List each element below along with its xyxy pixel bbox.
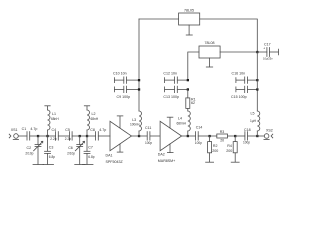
node B junction	[46, 135, 48, 137]
capacitor C17 electrolytic	[257, 48, 278, 57]
wire rail C15 to supply node (between 89.4 and 52 handled above via L5 path)	[256, 52, 258, 89]
svg-text:R4: R4	[227, 144, 232, 148]
capacitor C14	[196, 132, 199, 141]
svg-text:C6: C6	[68, 146, 73, 150]
capacitor C8	[96, 132, 99, 141]
op-amp DA1	[110, 116, 132, 152]
label L2 68nH	[91, 112, 99, 121]
capacitor C12	[165, 77, 188, 83]
op-amp DA2	[160, 117, 182, 152]
capacitor C18	[245, 132, 248, 141]
resistor R3	[210, 134, 236, 138]
node C12-rail junction	[187, 79, 189, 81]
svg-text:100p: 100p	[145, 141, 152, 145]
label C3 6.8p	[49, 146, 55, 160]
label R1 62	[191, 98, 196, 106]
ground under R2	[206, 161, 214, 163]
svg-text:DA1: DA1	[106, 154, 113, 158]
svg-text:C4: C4	[52, 128, 57, 132]
svg-text:L4: L4	[178, 117, 182, 121]
wire C14 to node G	[198, 135, 209, 137]
svg-text:78L08: 78L08	[205, 41, 215, 45]
wire C18 to node I	[248, 135, 258, 137]
svg-text:2/10p: 2/10p	[25, 152, 33, 156]
capacitor C7	[84, 136, 90, 164]
svg-text:DA2: DA2	[158, 153, 165, 157]
svg-text:6.8p: 6.8p	[88, 155, 94, 159]
node I junction	[256, 135, 258, 137]
label C17 + 10u/25v	[263, 42, 273, 60]
wire node I to XS2	[257, 135, 264, 137]
label R2 200	[212, 144, 218, 153]
inductor L5	[257, 89, 260, 136]
node C junction	[79, 135, 81, 137]
resistor R2	[208, 136, 212, 162]
wire C4 to C5	[58, 135, 69, 137]
svg-text:68nH: 68nH	[91, 117, 99, 121]
connector XS1	[9, 134, 18, 140]
svg-text:C8: C8	[90, 128, 95, 132]
wire node B to C4	[48, 135, 56, 137]
svg-text:L5: L5	[251, 112, 255, 116]
wire C1 to node A	[30, 135, 38, 137]
svg-text:10µ/25v: 10µ/25v	[263, 57, 273, 61]
wire C8 to DA1 input	[98, 135, 110, 137]
capacitor C1	[27, 132, 30, 141]
wire node F to C14	[188, 135, 196, 137]
node F junction	[187, 135, 189, 137]
ground under C3	[43, 164, 54, 166]
voltage regulator 78L05	[179, 13, 200, 25]
svg-text:4.7p: 4.7p	[99, 128, 106, 132]
node C15-rail junction	[256, 88, 258, 90]
label C18 100p	[243, 128, 251, 144]
svg-text:C10 10n: C10 10n	[113, 72, 127, 76]
capacitor C11	[139, 132, 160, 141]
svg-text:62: 62	[191, 101, 195, 105]
svg-text:C16 10n: C16 10n	[232, 72, 246, 76]
node E junction	[138, 135, 140, 137]
ground above L2	[84, 105, 89, 107]
ground under 78L05	[186, 25, 192, 35]
wire 78L08 input	[220, 51, 257, 53]
svg-text:C15 100p: C15 100p	[231, 95, 247, 99]
svg-text:2/10p: 2/10p	[67, 152, 75, 156]
svg-text:680nH: 680nH	[177, 122, 187, 126]
svg-text:C13 100p: C13 100p	[163, 95, 179, 99]
ground under R4	[231, 161, 239, 163]
wire DA2 output to node F	[182, 135, 188, 137]
node C9-rail junction	[138, 88, 140, 90]
svg-text:C3: C3	[49, 146, 54, 150]
svg-text:200: 200	[212, 149, 218, 153]
capacitor C10	[114, 77, 139, 83]
ground under 78L08	[206, 58, 212, 67]
svg-text:68nH: 68nH	[51, 117, 59, 121]
label R4 200	[226, 144, 232, 153]
svg-text:SPF5043Z: SPF5043Z	[106, 160, 124, 164]
ground under C2	[33, 164, 44, 166]
svg-text:78L05: 78L05	[184, 9, 194, 13]
inductor L2	[87, 106, 90, 136]
capacitor C13	[165, 86, 188, 92]
inductor L1	[48, 106, 51, 136]
svg-text:L2: L2	[92, 112, 96, 116]
label L3 100nH	[130, 118, 140, 127]
svg-text:1µH: 1µH	[250, 119, 257, 123]
svg-text:R3: R3	[220, 130, 225, 134]
wire node A to node B	[38, 135, 48, 137]
label C1 4.7p	[22, 127, 38, 131]
inductor L4	[188, 108, 191, 136]
svg-text:200: 200	[226, 149, 232, 153]
svg-text:XS2: XS2	[266, 129, 273, 133]
svg-text:6.8p: 6.8p	[49, 155, 55, 159]
trimmer capacitor C2	[34, 136, 43, 164]
wire node H to C18	[235, 135, 245, 137]
node A junction	[37, 135, 39, 137]
ground under C6	[75, 164, 86, 166]
wire node C to node D	[80, 135, 87, 137]
svg-text:100p: 100p	[243, 140, 250, 144]
svg-text:C1: C1	[22, 127, 27, 131]
label C4 2.2p	[50, 128, 56, 141]
svg-text:2.2p: 2.2p	[50, 137, 56, 141]
wire 78L08 output to 8V rail	[188, 52, 199, 80]
svg-text:C5: C5	[65, 128, 70, 132]
svg-text:C18: C18	[244, 128, 251, 132]
wire DA1 output to node E	[132, 135, 140, 137]
resistor R1	[186, 98, 190, 109]
svg-text:L3: L3	[132, 118, 136, 122]
svg-text:100nH: 100nH	[130, 123, 140, 127]
svg-text:20: 20	[220, 139, 224, 143]
capacitor C3	[45, 136, 51, 164]
label C11 100p	[145, 126, 152, 145]
capacitor C9	[114, 86, 139, 92]
wire 5V rail up from L3	[138, 19, 140, 111]
capacitor C16	[236, 77, 257, 83]
resistor R4	[233, 136, 237, 162]
svg-text:100p: 100p	[195, 141, 202, 145]
inductor L3	[139, 111, 142, 136]
voltage regulator 78L08	[199, 46, 220, 58]
svg-text:2.2p: 2.2p	[65, 137, 71, 141]
label L5 1uH	[250, 112, 257, 123]
svg-text:MAR8SM+: MAR8SM+	[158, 159, 175, 163]
svg-text:XS1: XS1	[11, 128, 18, 132]
connector XS2	[264, 134, 273, 140]
wire 78L05 to supply node	[200, 19, 258, 52]
wire rail to R1	[187, 89, 189, 98]
ground under C7	[83, 164, 94, 166]
svg-text:C12 10n: C12 10n	[163, 72, 177, 76]
capacitor C15	[236, 86, 257, 92]
label L4 680nH	[177, 117, 187, 126]
supply node junction	[256, 51, 258, 53]
node G junction	[209, 135, 211, 137]
label C2 2/10p	[25, 146, 33, 156]
svg-text:+: +	[263, 47, 265, 51]
svg-text:C7: C7	[88, 146, 93, 150]
node H junction	[234, 135, 236, 137]
svg-text:C14: C14	[196, 126, 203, 130]
label C14 100p	[195, 126, 202, 146]
label C6 2/10p	[67, 146, 75, 156]
wire C5 to node C	[72, 135, 80, 137]
capacitor C5	[69, 132, 72, 141]
node D junction	[86, 135, 88, 137]
node C10-rail junction	[138, 79, 140, 81]
ground above L1	[45, 105, 50, 107]
label C5 2.2p	[65, 128, 71, 141]
capacitor C4	[56, 132, 59, 141]
wire node D to C8	[87, 135, 96, 137]
svg-text:L1: L1	[52, 112, 56, 116]
wire XS1 to C1	[18, 135, 27, 137]
label L1 68nH	[51, 112, 59, 121]
node C16-rail junction	[256, 79, 258, 81]
svg-text:C9 100p: C9 100p	[117, 95, 131, 99]
svg-text:C2: C2	[27, 146, 32, 150]
label R3 20	[220, 130, 225, 143]
svg-text:R2: R2	[213, 144, 218, 148]
label DA2 MAR8SM+	[158, 153, 175, 164]
svg-text:C11: C11	[145, 126, 151, 130]
label C8 4.7p	[90, 128, 106, 132]
label DA1 SPF5043Z	[106, 154, 124, 165]
svg-text:4.7p: 4.7p	[30, 127, 37, 131]
label C7 6.8p	[88, 146, 94, 160]
node C13-rail junction	[187, 88, 189, 90]
wire rail to regulator DA3 input	[139, 18, 179, 20]
trimmer capacitor C6	[75, 136, 84, 164]
